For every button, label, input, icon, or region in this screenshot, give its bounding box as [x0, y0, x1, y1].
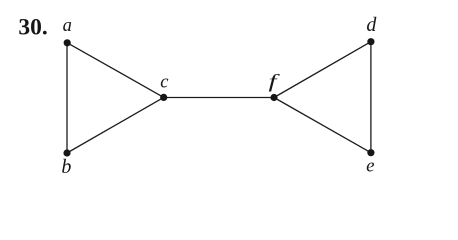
- svg-text:a: a: [63, 16, 72, 36]
- svg-text:30.: 30.: [18, 15, 47, 41]
- svg-text:c: c: [160, 73, 169, 93]
- svg-text:d: d: [366, 14, 377, 36]
- svg-text:e: e: [366, 156, 374, 177]
- svg-text:b: b: [61, 156, 71, 178]
